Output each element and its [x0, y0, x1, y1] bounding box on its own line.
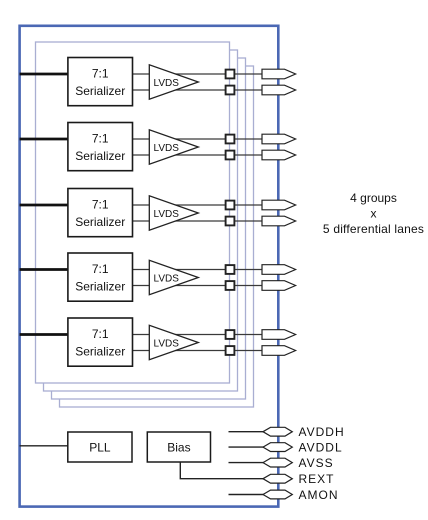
svg-text:LVDS: LVDS [154, 209, 180, 220]
svg-text:4 groups: 4 groups [350, 191, 397, 205]
svg-text:7:1: 7:1 [92, 327, 109, 341]
svg-text:7:1: 7:1 [92, 262, 109, 276]
svg-text:AMON: AMON [299, 488, 339, 502]
svg-text:PLL: PLL [89, 440, 111, 454]
svg-text:7:1: 7:1 [92, 66, 109, 80]
svg-text:7:1: 7:1 [92, 197, 109, 211]
svg-text:Serializer: Serializer [75, 149, 125, 163]
svg-text:REXT: REXT [299, 472, 335, 486]
svg-text:AVDDL: AVDDL [299, 440, 343, 454]
svg-text:LVDS: LVDS [154, 273, 180, 284]
svg-text:LVDS: LVDS [154, 143, 180, 154]
svg-text:Serializer: Serializer [75, 84, 125, 98]
svg-text:5 differential lanes: 5 differential lanes [323, 222, 424, 236]
svg-text:7:1: 7:1 [92, 131, 109, 145]
svg-text:Serializer: Serializer [75, 215, 125, 229]
svg-text:LVDS: LVDS [154, 78, 180, 89]
svg-text:Serializer: Serializer [75, 279, 125, 293]
svg-text:AVSS: AVSS [299, 456, 334, 470]
svg-text:Serializer: Serializer [75, 344, 125, 358]
svg-text:x: x [371, 206, 377, 220]
svg-text:LVDS: LVDS [154, 338, 180, 349]
svg-text:Bias: Bias [167, 440, 190, 454]
svg-text:AVDDH: AVDDH [299, 425, 345, 439]
